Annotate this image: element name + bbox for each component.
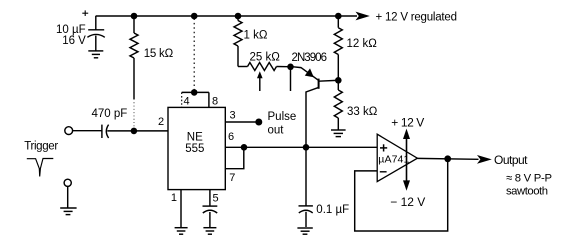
capacitor C2 470 pF: [102, 125, 109, 138]
svg-text:8: 8: [212, 96, 218, 108]
svg-text:≈ 8 V P-P: ≈ 8 V P-P: [506, 173, 552, 185]
pin 6 lead and net to op-amp: [225, 146, 377, 148]
wire dashed drop from rail to pins 4 and 8: [193, 19, 195, 92]
svg-text:33 kΩ: 33 kΩ: [347, 106, 378, 118]
svg-text:NE: NE: [187, 132, 203, 144]
node rail junction at 15k: [131, 13, 138, 20]
capacitor C1 10uF 16V: [87, 16, 104, 51]
ground below trigger terminal: [60, 208, 76, 215]
node emitter junction: [287, 64, 294, 71]
ground below C4: [297, 228, 312, 234]
svg-text:0.1 µF: 0.1 µF: [316, 204, 349, 216]
pin 3 lead to pulse out: [225, 121, 256, 123]
pin 7 lead: [225, 147, 244, 168]
wire feedback loop from output to inverting input: [355, 159, 448, 231]
svg-text:− 12 V: − 12 V: [390, 195, 425, 209]
svg-text:470 pF: 470 pF: [92, 108, 128, 120]
svg-text:µA741: µA741: [378, 154, 409, 166]
node collector / cap junction: [303, 144, 310, 151]
pin 5 lead: [209, 190, 211, 206]
ground below pin 1: [175, 228, 188, 235]
op-amp minus input sign: [380, 171, 387, 173]
svg-text:1 kΩ: 1 kΩ: [244, 29, 268, 41]
node pulse out terminal dot: [255, 119, 262, 126]
wire terminal to C2: [73, 130, 102, 132]
transistor Q1 emitter lead with arrow: [293, 67, 318, 80]
resistor R2 1 kOhm: [234, 16, 242, 67]
svg-text:4: 4: [184, 96, 190, 108]
svg-text:sawtooth: sawtooth: [506, 185, 548, 197]
node rail junction at pins 4-8 drop: [191, 13, 198, 20]
svg-text:Trigger: Trigger: [24, 141, 58, 153]
wire pot to emitter node: [277, 66, 289, 68]
svg-text:Pulse: Pulse: [268, 111, 297, 123]
potentiometer R3 25 kOhm: [248, 63, 277, 71]
svg-text:555: 555: [185, 143, 204, 155]
svg-text:+ 12 V regulated: + 12 V regulated: [376, 12, 458, 24]
wire output: [417, 157, 478, 160]
node rail junction at 12k: [335, 13, 342, 20]
svg-text:Output: Output: [494, 153, 528, 167]
op-amp U2 uA741 triangle: [377, 134, 417, 181]
transistor Q1 base lead to divider: [319, 79, 337, 82]
wire C2 to pin 2: [107, 130, 168, 132]
wire stub below emitter node: [290, 70, 292, 92]
capacitor C4 0.1 uF: [299, 147, 313, 227]
resistor R1 15 kOhm: [130, 16, 138, 128]
op-amp supply arrows: [403, 129, 410, 191]
capacitor C1 10uF 16V polarity plus: [82, 10, 88, 16]
wire bracket joining pin 4 and pin 8: [182, 91, 209, 93]
pin 8 lead: [208, 92, 210, 107]
node divider junction: [335, 77, 342, 84]
node output arrow: [477, 155, 492, 164]
svg-text:12 kΩ: 12 kΩ: [347, 38, 378, 50]
trigger input terminal circle: [65, 127, 73, 135]
node output junction: [444, 155, 451, 162]
svg-text:2: 2: [158, 116, 164, 128]
resistor R4 12 kOhm: [334, 16, 342, 80]
svg-text:25 kΩ: 25 kΩ: [250, 51, 281, 63]
ground below 33k: [331, 130, 346, 137]
IC U1 NE555 body: [168, 107, 225, 189]
svg-text:6: 6: [228, 131, 234, 143]
transistor Q1 collector lead: [306, 87, 319, 147]
node rail junction at 1k: [235, 13, 242, 20]
svg-text:2N3906: 2N3906: [292, 52, 328, 64]
transistor Q1 base bar: [318, 79, 320, 89]
pin 4 lead (dotted): [181, 92, 183, 107]
svg-text:1: 1: [171, 192, 177, 204]
wire top +12V rail: [96, 15, 357, 17]
wire terminal to ground: [67, 186, 69, 207]
capacitor C3 at pin 5: [203, 206, 218, 227]
svg-text:+ 12 V: + 12 V: [391, 116, 424, 130]
svg-text:3: 3: [230, 110, 236, 122]
ground below C3: [203, 228, 216, 235]
trigger ground terminal circle: [64, 179, 71, 186]
trigger pulse waveform symbol: [27, 159, 54, 177]
node junction on pin 4-8 bracket: [191, 89, 198, 96]
node +12V arrow to regulated supply: [356, 12, 370, 21]
pin 1 lead: [180, 190, 182, 228]
svg-text:out: out: [268, 125, 285, 137]
svg-text:15 kΩ: 15 kΩ: [144, 48, 174, 60]
node junction 15k / C2 / pin 2: [131, 128, 138, 135]
node pin6-pin7 junction: [241, 144, 248, 151]
resistor R5 33 kOhm: [334, 80, 342, 129]
potentiometer wiper arrow: [257, 71, 263, 91]
svg-text:5: 5: [213, 193, 219, 205]
svg-text:16 V: 16 V: [62, 35, 86, 47]
wire 1k bottom to pot: [238, 66, 248, 68]
svg-text:7: 7: [229, 172, 235, 184]
ground below C1: [88, 51, 103, 58]
